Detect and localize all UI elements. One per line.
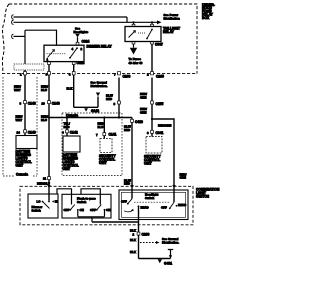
svg-text:GRN: GRN bbox=[180, 176, 186, 180]
border pin at W1 bbox=[24, 72, 27, 75]
svg-text:HEAD: HEAD bbox=[141, 205, 149, 209]
connector C142 pin 4 bbox=[66, 130, 69, 133]
svg-text:Switch: Switch bbox=[77, 200, 87, 204]
svg-text:BLK: BLK bbox=[130, 238, 137, 242]
svg-text:UNIT: UNIT bbox=[16, 164, 24, 168]
svg-text:C426: C426 bbox=[135, 120, 143, 124]
connector pin 8 on WA bbox=[118, 101, 121, 104]
label: Headlight Switch bbox=[145, 193, 158, 201]
svg-text:OFF: OFF bbox=[121, 199, 127, 203]
label: See Ground Distribution bbox=[91, 81, 108, 89]
connector C148 pin 20 on W2 bbox=[48, 101, 51, 104]
label: DAYTIME RUNNING LIGHTS CONTROL UNIT (left) bbox=[16, 150, 32, 168]
wire from bus corner down to headlight switch (C426 wire) bbox=[131, 118, 133, 199]
label BLU/RED on WA bbox=[106, 94, 113, 102]
junction W2 x bus bbox=[48, 116, 50, 118]
svg-text:RED: RED bbox=[64, 125, 70, 129]
label: See Headlights bbox=[74, 27, 89, 34]
ground stub with T bar bbox=[168, 250, 173, 259]
connector C155 on WB bbox=[151, 101, 154, 104]
arrow to See Power Distribution bbox=[157, 20, 162, 24]
svg-text:DIMMER RELAY: DIMMER RELAY bbox=[87, 45, 113, 49]
crossing arrow W2 into combination switch bbox=[47, 185, 51, 188]
svg-text:HEAD: HEAD bbox=[178, 203, 186, 207]
svg-text:UNIT: UNIT bbox=[99, 161, 107, 165]
under-hood box torn left edge bbox=[2, 4, 9, 74]
svg-text:RED: RED bbox=[106, 97, 112, 101]
dimmer relay U1 box bbox=[44, 45, 84, 61]
label: Flash-to-pass Switch bbox=[77, 197, 96, 205]
svg-text:HI: HI bbox=[55, 199, 58, 203]
svg-text:WHT: WHT bbox=[14, 88, 21, 92]
wire W2 vertical (RED/BLU) from dimmer relay bbox=[48, 65, 50, 102]
taillight relay K2 box bbox=[125, 27, 161, 42]
svg-text:C208: C208 bbox=[123, 75, 131, 79]
wire color label RED/BLU (mid W2) bbox=[41, 115, 48, 123]
svg-text:G401: G401 bbox=[164, 262, 172, 266]
ground wire from HEAD contact bbox=[92, 206, 139, 258]
wire T2 (power bus to relays and See Power Distribution) bbox=[12, 20, 157, 25]
svg-text:C142: C142 bbox=[70, 131, 78, 135]
wire color label RED/WHT (mid W1) bbox=[16, 115, 23, 123]
svg-text:C148: C148 bbox=[52, 102, 60, 106]
svg-text:BLU: BLU bbox=[41, 118, 47, 122]
svg-text:Distribution.: Distribution. bbox=[91, 84, 108, 88]
svg-text:Canada: Canada bbox=[16, 173, 28, 177]
svg-text:WHT: WHT bbox=[16, 118, 23, 122]
wire WB vertical (RED/GRN) from taillight relay bbox=[151, 44, 153, 130]
svg-text:C141: C141 bbox=[109, 133, 117, 137]
wire color label YEL (C142 branch) bbox=[64, 122, 71, 130]
svg-text:BLU: BLU bbox=[41, 88, 47, 92]
label: TAILLIGHT RELAY bbox=[163, 26, 180, 34]
label: See Power Distribution bbox=[164, 13, 180, 21]
svg-text:BLK: BLK bbox=[130, 250, 137, 254]
svg-text:Switch: Switch bbox=[32, 209, 42, 213]
left DRL dashed box (Canada) bbox=[3, 77, 37, 176]
connector C148 pin 8 on W1 bbox=[24, 101, 27, 104]
svg-text:RELAY: RELAY bbox=[163, 30, 175, 34]
svg-text:BLK: BLK bbox=[67, 87, 74, 91]
bridge wire into pole 2 bbox=[81, 189, 100, 205]
wire color label BLU/RED (above switch) bbox=[124, 178, 131, 185]
svg-text:RED/GRN: RED/GRN bbox=[158, 124, 171, 128]
svg-text:RED: RED bbox=[124, 128, 130, 132]
svg-text:GRN: GRN bbox=[140, 96, 146, 100]
branch from bus into C141 bbox=[103, 118, 105, 133]
dimmer relay coil bbox=[47, 50, 67, 58]
svg-text:C143: C143 bbox=[28, 131, 36, 135]
wire W1 vertical (RED/WHT) from fuse box bbox=[24, 70, 26, 101]
svg-text:C155: C155 bbox=[156, 102, 164, 106]
connector C426 on vertical bbox=[131, 119, 134, 122]
middle daytime running lights control unit box bbox=[63, 136, 80, 152]
svg-text:Switch: Switch bbox=[145, 196, 155, 200]
connector C341 on WB bbox=[151, 130, 154, 133]
taillight relay contact blade bbox=[138, 29, 153, 40]
label: To Fuses 48 &/or 49 bbox=[129, 57, 143, 65]
wire into left DRL unit bbox=[24, 133, 26, 136]
svg-text:20: 20 bbox=[42, 102, 46, 106]
border pin at WB with connector C205 bbox=[151, 72, 154, 75]
connector C143 pin 14 on W1 bbox=[24, 130, 27, 133]
wire WA vertical (BLU/RED) bbox=[118, 74, 120, 118]
svg-text:SWITCH: SWITCH bbox=[196, 195, 210, 199]
stub up to See Ground Distribution bbox=[97, 97, 99, 108]
svg-text:14: 14 bbox=[17, 131, 21, 135]
under-hood fuse/relay box dashed border bbox=[2, 4, 197, 74]
svg-text:C824: C824 bbox=[77, 61, 85, 65]
label: Dimmer Switch bbox=[32, 205, 44, 213]
wire color label RED/GRN (above switch) bbox=[180, 172, 187, 179]
wire color label RED/GRN (upper WB) bbox=[140, 92, 147, 100]
border pin at W2 bbox=[48, 72, 51, 75]
wire T3 (feed to dimmer relay) with hook bbox=[12, 30, 57, 64]
dimmer switch box bbox=[28, 194, 58, 218]
wire color label (C141 branch) bbox=[98, 122, 105, 130]
svg-text:OFF: OFF bbox=[90, 208, 96, 212]
wire color label BLU/RED (below C426) bbox=[124, 125, 131, 133]
svg-text:C907: C907 bbox=[155, 43, 163, 47]
middle Canada dashed box bbox=[62, 113, 122, 176]
svg-text:C205: C205 bbox=[156, 75, 164, 79]
wire W1 lower segment bbox=[24, 104, 26, 130]
junction WA x bus bbox=[118, 116, 120, 118]
wire to ground G401 bbox=[139, 258, 171, 260]
svg-text:RED: RED bbox=[124, 182, 130, 186]
dimmer relay contact blade bbox=[69, 47, 78, 58]
svg-text:OFF: OFF bbox=[161, 206, 167, 210]
border pin at W3 bbox=[72, 72, 75, 75]
dimmer relay bottom pins bbox=[48, 62, 51, 65]
wire color label RED/GRN (branch) bbox=[158, 124, 171, 128]
dimmer relay top pin C824 connector bbox=[76, 42, 79, 45]
connector pin 11 on W2 bbox=[48, 177, 51, 180]
taillight relay coil bbox=[129, 31, 136, 38]
mechanical link between poles bbox=[134, 201, 169, 203]
dashed link to See Ground Distribution bbox=[140, 242, 156, 244]
wire color label RED/GRN (below C155) bbox=[140, 107, 147, 115]
svg-text:BLU: BLU bbox=[98, 125, 104, 129]
BLK ground run to G142 bbox=[74, 106, 98, 108]
svg-text:ON: ON bbox=[80, 208, 84, 212]
svg-text:C236: C236 bbox=[142, 233, 150, 237]
label: SECURITY CONTROL UNIT (left) bbox=[99, 154, 116, 165]
taillight relay bottom pin connectors bbox=[132, 42, 135, 45]
combination light switch dashed box bbox=[20, 186, 193, 225]
svg-text:RED/BLU: RED/BLU bbox=[37, 181, 50, 185]
border pin at WA with connector C208 bbox=[118, 72, 121, 75]
svg-text:C148: C148 bbox=[28, 102, 36, 106]
svg-text:BOX: BOX bbox=[202, 16, 210, 20]
svg-text:Headlights: Headlights bbox=[74, 30, 89, 34]
junction WB branch to headlight switch bbox=[151, 118, 153, 120]
left security control unit box bbox=[100, 139, 112, 153]
svg-text:Distribution: Distribution bbox=[164, 16, 180, 20]
headlight switch box bbox=[119, 190, 188, 220]
ground symbol G401 bbox=[158, 259, 162, 263]
svg-text:C824: C824 bbox=[82, 39, 90, 43]
svg-text:GRN: GRN bbox=[140, 111, 146, 115]
wire from C824 down-arrow from See Headlights bbox=[77, 37, 79, 42]
fuse holder dotted box bbox=[14, 64, 44, 70]
connector C236 pin 2 bbox=[137, 232, 140, 235]
left daytime running lights control unit box bbox=[16, 136, 37, 149]
bridge wire dimmer HI to flash-to-pass pole 1 bbox=[57, 189, 72, 205]
label: UNDER-HOOD FUSE/RELAY BOX bbox=[202, 3, 215, 20]
svg-text:G142: G142 bbox=[91, 109, 99, 113]
crossing arrow RED/GRN wire into combination switch bbox=[172, 185, 176, 188]
right security control unit box bbox=[146, 137, 162, 154]
crossing arrow C426 wire into combination switch bbox=[130, 185, 134, 188]
flash-to-pass output bar bbox=[78, 210, 105, 222]
svg-text:48 &/or 49: 48 &/or 49 bbox=[129, 61, 143, 65]
bus wire y=117.5 from W2 to C426 corner bbox=[49, 117, 132, 119]
wire W3 vertical (BLK) from dimmer relay bbox=[73, 65, 75, 108]
ground symbol G142 bbox=[84, 108, 88, 111]
arrow down to fuses bbox=[133, 44, 135, 48]
svg-text:C341: C341 bbox=[156, 131, 164, 135]
svg-text:Distribution.: Distribution. bbox=[162, 241, 179, 245]
label: COMBINATION LIGHT SWITCH bbox=[196, 187, 220, 198]
label: DAYTIME RUNNING LIGHTS CONTROL UNIT (middle) bbox=[63, 153, 79, 171]
label: SECURITY CONTROL UNIT (right) bbox=[144, 155, 161, 166]
taillight relay top pin connectors bbox=[132, 24, 135, 26]
wire T1 (upper bus) with left continuation hook bbox=[12, 15, 127, 23]
svg-text:UNIT: UNIT bbox=[63, 167, 71, 171]
wire color label RED/BLU (top of W2) bbox=[41, 85, 48, 93]
svg-text:OFF: OFF bbox=[64, 208, 70, 212]
svg-text:UNIT: UNIT bbox=[144, 162, 152, 166]
flash-to-pass switch box bbox=[62, 194, 111, 218]
wire W2 long vertical to combination switch bbox=[48, 104, 50, 201]
connector C141 pin 7 bbox=[103, 133, 106, 136]
svg-text:11: 11 bbox=[43, 177, 46, 181]
branch from bus into C142 bbox=[66, 118, 68, 130]
taillight relay feed drops from T2 with junction dots bbox=[132, 21, 153, 24]
svg-text:ON: ON bbox=[106, 208, 110, 212]
wire color label RED/WHT (top of W1) bbox=[14, 85, 21, 93]
